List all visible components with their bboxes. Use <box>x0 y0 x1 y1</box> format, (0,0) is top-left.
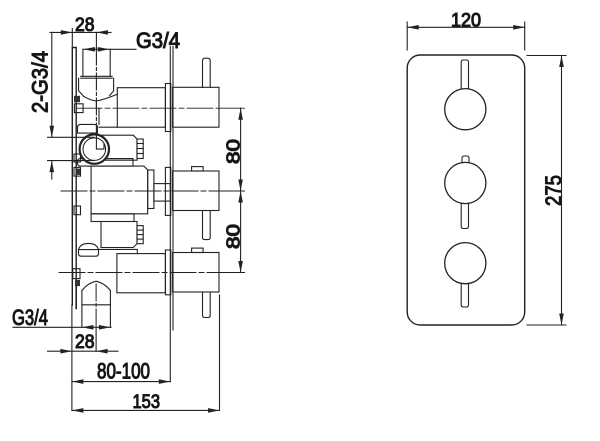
ext line 153 right <box>219 295 221 410</box>
bottom outlet tent + pipe <box>82 281 111 327</box>
middle neck <box>154 184 170 202</box>
bottom valve body <box>117 254 165 293</box>
bottom flange <box>165 250 170 295</box>
ext lines 120 <box>407 22 525 50</box>
svg-text:80: 80 <box>224 224 244 249</box>
bottom cartridge tab <box>192 248 204 252</box>
middle cartridge tab <box>192 167 204 171</box>
wall mounting plate <box>72 48 76 306</box>
middle stem <box>203 211 211 240</box>
port circle outer <box>80 134 109 163</box>
port tangent lines at circle <box>48 137 94 160</box>
bottom knob <box>445 243 486 284</box>
ext lines 275 <box>527 56 566 326</box>
wall surface extension line <box>71 305 73 410</box>
top valve body <box>117 88 165 128</box>
circle internals <box>96 136 104 149</box>
trim plate front view <box>407 55 525 325</box>
lower ribs <box>137 226 143 244</box>
union collar <box>81 76 112 78</box>
bar 2 <box>91 214 134 222</box>
ext line wall surface top <box>71 29 73 48</box>
mixer block <box>101 135 137 160</box>
bottom stem <box>203 292 211 318</box>
top centerline <box>76 107 219 109</box>
leader G3/4 top <box>83 48 136 50</box>
dim line 153 <box>72 409 220 411</box>
middle flange <box>165 167 170 215</box>
lower mixer block <box>101 222 137 248</box>
svg-text:28: 28 <box>75 332 95 353</box>
dim line 28 bottom <box>48 350 118 352</box>
cap above port circle <box>78 124 98 133</box>
plate lug screws <box>74 96 80 102</box>
union nut <box>79 78 114 96</box>
svg-text:2-G3/4: 2-G3/4 <box>28 51 53 113</box>
dim line 80-100 <box>72 381 170 383</box>
bottom cartridge (right of wall) <box>173 253 219 293</box>
leader line 2-G3/4 vertical <box>51 32 53 136</box>
svg-text:275: 275 <box>541 175 566 206</box>
middle knob stem <box>461 203 468 228</box>
screw shank <box>75 286 77 308</box>
svg-text:G3/4: G3/4 <box>12 305 48 330</box>
middle knob <box>445 162 486 203</box>
dim line 80/80 <box>240 108 242 272</box>
dim line 275 <box>561 56 563 326</box>
funnel to union <box>84 96 97 101</box>
bottom centerline <box>59 272 219 274</box>
leader G3/4 bottom <box>13 326 111 328</box>
mixer ribs <box>137 139 143 159</box>
bar below circle <box>78 159 134 167</box>
svg-text:120: 120 <box>451 10 481 31</box>
top inlet pipe G3/4 <box>83 49 110 76</box>
top flange <box>165 84 170 132</box>
top knob stem <box>461 60 468 89</box>
middle cartridge (right of wall) <box>173 171 219 211</box>
middle knob tab <box>462 156 469 163</box>
svg-text:80-100: 80-100 <box>97 358 150 383</box>
middle centerline <box>61 190 219 192</box>
finished wall / trim line <box>169 47 171 382</box>
middle step <box>148 170 154 209</box>
port circle inner <box>83 138 106 161</box>
bottom knob stem <box>461 284 468 307</box>
left chamber below elbow <box>99 108 117 127</box>
top cartridge (right of wall) <box>173 87 219 127</box>
arrow up to lower port line <box>51 161 53 179</box>
top stem <box>203 58 211 87</box>
bottom pipe centerline <box>95 284 97 327</box>
top knob <box>445 89 486 130</box>
svg-text:80: 80 <box>224 139 244 164</box>
dim line 28 top <box>50 31 111 33</box>
dim line 120 <box>407 26 525 28</box>
ext/center line top pipe <box>95 32 97 48</box>
middle large body <box>91 166 148 214</box>
dome bump <box>79 243 99 249</box>
bottom body top line <box>99 249 138 253</box>
